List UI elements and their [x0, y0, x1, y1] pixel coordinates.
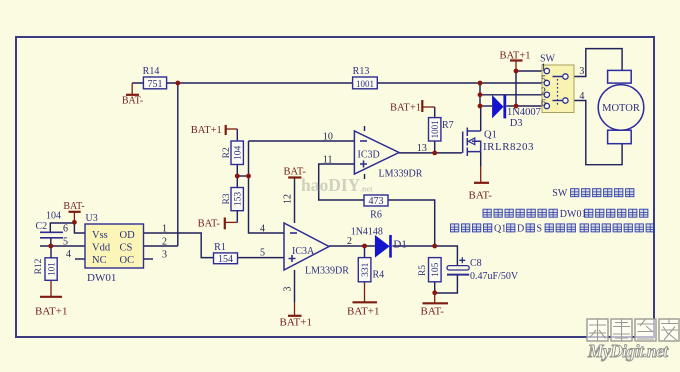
svg-text:105: 105: [431, 262, 441, 277]
svg-text:C2: C2: [36, 221, 48, 232]
svg-text:D: D: [517, 224, 524, 235]
wire R12 top lead: [50, 246, 52, 258]
svg-text:Vss: Vss: [92, 230, 108, 241]
svg-text:IC3D: IC3D: [358, 150, 380, 161]
svg-text:LM339DR: LM339DR: [379, 168, 423, 179]
wire D1 cathode to R5 and C8: [392, 246, 457, 266]
wire vertical junction column at x480: [479, 83, 481, 106]
op-amp IC3A LM339DR: [284, 223, 349, 277]
svg-text:R12: R12: [34, 258, 44, 274]
diode D3 1N4007: [492, 95, 541, 129]
wire BAT+1 column to D3 node: [515, 71, 517, 106]
wire R2 bottom to junction: [236, 165, 238, 177]
svg-text:BAT-: BAT-: [198, 219, 221, 230]
svg-text:R14: R14: [143, 66, 160, 77]
op-amp IC3D LM339DR: [354, 131, 422, 179]
resistor R3: [222, 188, 243, 211]
svg-text:1N4148: 1N4148: [351, 227, 383, 238]
svg-text:SW: SW: [552, 188, 568, 199]
svg-text:BAT-: BAT-: [421, 306, 445, 318]
power bar BAT- at R3: [224, 218, 226, 230]
power lead BAT- to R3: [226, 221, 238, 223]
svg-text:LM339DR: LM339DR: [305, 266, 349, 277]
svg-text:101: 101: [46, 262, 56, 276]
svg-text:CS: CS: [120, 242, 133, 253]
resistor R13: [353, 66, 378, 89]
svg-text:5: 5: [541, 75, 546, 86]
power lead BAT+1 to R7: [423, 106, 435, 108]
power stem BAT- under Q1: [480, 166, 482, 183]
resistor R14: [143, 66, 167, 90]
svg-text:3: 3: [162, 250, 167, 261]
wire IC3A pin 12 stub to BAT-: [294, 178, 296, 223]
svg-text:U3: U3: [86, 213, 98, 224]
svg-text:MyDigit.net: MyDigit.net: [587, 341, 669, 361]
power stem BAT+1 top at switch: [515, 61, 517, 72]
junction BAT+1 D3 cathode: [514, 104, 519, 109]
power bar BAT- above DW01: [69, 211, 81, 213]
junction R2 R3 node: [235, 174, 240, 179]
svg-text:DW01: DW01: [560, 209, 587, 220]
wire junction jumper R2R3 node: [237, 175, 248, 177]
wire IC3D pin 11 input loop to R6: [319, 164, 364, 200]
svg-text:OC: OC: [120, 255, 135, 266]
resistor R4: [358, 258, 384, 282]
wire DW01 pin 4 stub: [75, 258, 85, 260]
svg-text:2: 2: [541, 86, 546, 97]
svg-text:1N4007: 1N4007: [507, 107, 541, 118]
svg-text:6: 6: [63, 224, 68, 235]
svg-text:Q1: Q1: [494, 224, 506, 235]
svg-text:331: 331: [361, 262, 371, 277]
svg-text:D3: D3: [510, 118, 523, 129]
svg-text:BAT+1: BAT+1: [390, 103, 421, 114]
capacitor C8 polarized: [447, 257, 519, 282]
wire vertical node to IC3A pin 4: [249, 141, 285, 233]
svg-text:R1: R1: [214, 242, 226, 253]
power bar BAT+1 under R4: [353, 301, 378, 303]
svg-text:0.47uF/50V: 0.47uF/50V: [470, 271, 519, 282]
svg-text:473: 473: [369, 196, 384, 207]
svg-text:1: 1: [162, 224, 167, 235]
power bar BAT+1 at R2: [225, 125, 227, 135]
power stem BAT+1 under IC3A pin3: [294, 302, 296, 316]
junction IC3A output R4: [362, 244, 367, 249]
svg-text:S: S: [537, 224, 543, 235]
wire switch pin 2: [480, 94, 544, 96]
wire switch pin 1: [516, 70, 544, 72]
svg-text:4: 4: [66, 249, 71, 260]
wire IC3A output pin 2 to D1 anode: [329, 245, 375, 247]
watermark haoDIY.net: [301, 175, 373, 195]
power bar BAT- under R5: [423, 302, 449, 304]
watermark MyDigit bottom right : 数码之家: [587, 319, 679, 341]
wire switch pin 3 to motor top: [568, 49, 622, 77]
wire D3 anode row: [480, 105, 492, 107]
IC U3 DW01: [85, 213, 144, 284]
wire IC3D output pin 13 to Q1 gate: [399, 152, 462, 154]
svg-text:C8: C8: [470, 258, 482, 269]
power stem BAT- at R14: [131, 83, 133, 95]
svg-text:.net: .net: [360, 185, 373, 194]
svg-text:BAT+1: BAT+1: [280, 317, 312, 329]
svg-text:R6: R6: [370, 210, 382, 221]
power bar BAT+1 top at switch: [510, 59, 523, 61]
junction BAT+1 pin1: [514, 69, 519, 74]
note SW direction line: [552, 188, 634, 199]
note overcurrent protection line: [451, 224, 655, 235]
svg-text:OD: OD: [120, 230, 136, 241]
resistor R7: [429, 118, 454, 141]
resistor R2: [222, 141, 243, 165]
wire IC3A pin 3 stub: [294, 270, 296, 302]
svg-text:3: 3: [579, 66, 584, 77]
svg-text:BAT+1: BAT+1: [35, 306, 67, 318]
power bar BAT+1 at R7: [421, 100, 423, 112]
wire BAT+1 to R7 top: [434, 107, 436, 118]
svg-text:R4: R4: [373, 270, 385, 281]
svg-text:BAT-: BAT-: [63, 201, 84, 212]
svg-text:13: 13: [417, 143, 427, 154]
resistor R1: [214, 242, 238, 265]
svg-text:IRLR8203: IRLR8203: [483, 141, 534, 153]
svg-text:D1: D1: [393, 239, 406, 251]
power stem BAT+1 under R12: [50, 280, 52, 296]
wire C2 top plate to BAT- node: [50, 223, 74, 232]
svg-text:BAT+1: BAT+1: [347, 306, 379, 318]
wire R3 bottom lead: [236, 211, 238, 223]
diode D1 1N4148: [351, 227, 407, 258]
resistor R5: [418, 258, 441, 282]
junction divider to IC3A pin4: [246, 174, 251, 179]
power stem BAT- under R5: [434, 293, 436, 303]
svg-text:4: 4: [260, 224, 265, 235]
svg-text:R7: R7: [442, 120, 454, 131]
svg-text:12: 12: [283, 194, 294, 204]
wire main top net from R14 to switch pin 5: [132, 82, 544, 84]
junction R5 bottom C8: [432, 290, 437, 295]
junction on main net at R14: [175, 81, 180, 86]
svg-text:5: 5: [63, 237, 68, 248]
svg-text:R5: R5: [418, 265, 428, 276]
svg-text:1001: 1001: [430, 120, 440, 138]
svg-text:11: 11: [323, 155, 333, 166]
wire R6 right to D1 cathode node: [388, 200, 435, 246]
svg-text:153: 153: [233, 192, 243, 207]
wire DW01 pin 1 OD to R1: [144, 233, 214, 258]
note undervoltage protection line: [483, 209, 648, 220]
wire DW01 pin 6 to BAT- node: [74, 222, 85, 233]
svg-text:6: 6: [541, 98, 546, 109]
svg-text:NC: NC: [92, 255, 107, 266]
junction x480 top: [478, 81, 483, 86]
svg-text:R2: R2: [222, 147, 232, 158]
sheet border frame: [16, 37, 654, 337]
junction C2 bottom R12 pin5: [48, 244, 53, 249]
svg-text:104: 104: [233, 145, 243, 160]
svg-text:DW01: DW01: [87, 272, 116, 284]
svg-text:104: 104: [46, 211, 61, 222]
wire switch pin 4 to motor bottom: [568, 101, 622, 165]
wire IC3D power stubs: [364, 126, 366, 179]
wire IC3D pin 10 input: [249, 140, 355, 142]
switch SW: [540, 54, 574, 113]
svg-text:MOTOR: MOTOR: [602, 103, 640, 114]
capacitor C2: [40, 232, 63, 238]
power bar BAT+1 under IC3A pin3: [288, 315, 302, 317]
junction D1 cathode R5 top: [432, 244, 437, 249]
svg-text:2: 2: [162, 237, 167, 248]
Q1 body arrow: [468, 138, 475, 145]
junction x480 D3 anode: [478, 104, 483, 109]
MOSFET Q1 IRLR8203: [463, 128, 481, 157]
svg-text:haoDIY: haoDIY: [301, 175, 361, 195]
wire D3 cathode to switch pin 6: [506, 105, 544, 107]
motor M: [598, 70, 644, 143]
svg-text:Vdd: Vdd: [92, 242, 111, 253]
wire DW01 pin 2 CS: [144, 245, 178, 247]
power stem BAT- above DW01: [73, 212, 75, 223]
svg-text:IC3A: IC3A: [292, 246, 315, 257]
wire DW01 pin 3 stub: [144, 258, 154, 260]
svg-text:BAT-: BAT-: [122, 96, 143, 107]
power bar BAT- under Q1: [474, 182, 489, 184]
svg-text:1001: 1001: [356, 79, 374, 89]
svg-text:R3: R3: [222, 193, 232, 204]
resistor R6: [364, 195, 388, 221]
wire C8 bottom to R5 bottom: [435, 275, 458, 293]
junction BAT- C2 pin6: [72, 220, 77, 225]
wire R5 bottom lead: [434, 282, 436, 293]
svg-text:BAT-: BAT-: [469, 190, 493, 202]
wire C2 bottom plate to pin5 row: [50, 238, 52, 246]
svg-text:4: 4: [579, 91, 584, 102]
svg-text:1: 1: [541, 63, 546, 74]
wire R1 to IC3A pin 5: [238, 257, 285, 259]
power stem BAT+1 under R4: [364, 282, 366, 302]
resistor R12: [34, 258, 57, 281]
junction R7 bottom gate drive: [432, 151, 437, 156]
power bar BAT- at R14: [126, 94, 139, 96]
wire R4 top lead: [364, 246, 366, 258]
svg-text:10: 10: [323, 132, 333, 143]
wire R7 bottom lead: [434, 141, 436, 153]
svg-text:2: 2: [347, 236, 352, 247]
svg-text:154: 154: [218, 254, 233, 265]
svg-text:751: 751: [148, 79, 163, 90]
power bar BAT- above IC3A pin12: [288, 176, 301, 178]
svg-text:5: 5: [260, 248, 265, 259]
svg-text:R13: R13: [353, 66, 370, 77]
wire R3 top lead: [236, 176, 238, 188]
wire vertical from main net down to DW01 CS pin 2: [177, 83, 179, 246]
svg-text:BAT+1: BAT+1: [500, 51, 531, 62]
power lead BAT+1 to R2: [226, 128, 238, 130]
wire Q1 source down: [480, 152, 482, 166]
power bar BAT+1 under R12: [40, 296, 62, 298]
svg-text:3: 3: [283, 287, 294, 292]
wire R2 top lead down: [236, 129, 238, 141]
wire Q1 drain up to D3 anode node: [480, 106, 482, 131]
svg-text:BAT+1: BAT+1: [191, 125, 222, 136]
junction x480 pin2: [478, 92, 483, 97]
wire DW01 pin 5 row: [40, 245, 85, 247]
svg-text:Q1: Q1: [484, 130, 497, 141]
